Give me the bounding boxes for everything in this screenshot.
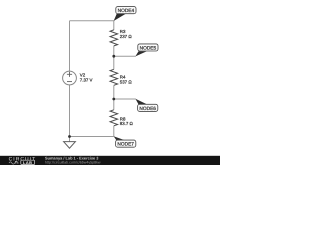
wire: bottom rail horizontal <box>70 136 114 138</box>
node NODE7 flag tail <box>114 136 125 140</box>
svg-text:NODE5: NODE5 <box>140 46 157 52</box>
node NODE4 flag tail <box>114 14 126 21</box>
voltage source V2 minus sign <box>67 81 72 83</box>
voltage source V2 plus sign <box>67 72 72 77</box>
svg-text:7.37 V: 7.37 V <box>80 78 93 83</box>
node NODE5 flag tail <box>135 51 146 56</box>
resistor R8 <box>110 110 118 126</box>
svg-text:LAB: LAB <box>23 160 33 165</box>
junction dot at NODE6 tee <box>112 98 115 101</box>
footer CircuitLab logo LAB box <box>21 160 35 164</box>
footer bar background <box>0 156 220 165</box>
ground symbol <box>64 142 76 149</box>
node NODE6 flag tail <box>135 99 146 104</box>
wire: NODE5 stub <box>114 55 136 57</box>
junction dot at ground tee <box>68 135 71 138</box>
resistor R3 <box>110 30 118 46</box>
wire: lead R4 bottom to NODE6 junction <box>113 85 115 109</box>
node NODE4 flag box <box>116 7 136 14</box>
wire: left rail from top-left corner to V2 positive terminal <box>69 21 71 71</box>
node NODE7 flag box <box>116 140 136 147</box>
svg-text:NODE6: NODE6 <box>139 106 156 112</box>
svg-text:237 Ω: 237 Ω <box>120 34 133 39</box>
wire: V2 negative terminal down to ground junction <box>69 85 71 142</box>
wire: right rail lead into R3 top <box>113 21 115 30</box>
svg-text:http://circuitlab.com/c/6bw4y5: http://circuitlab.com/c/6bw4y5p8kw <box>45 161 101 165</box>
node NODE5 flag box <box>138 44 158 51</box>
voltage source V2 circle <box>63 71 77 85</box>
node NODE6 flag box <box>138 104 158 111</box>
footer CircuitLab logo waveform <box>9 161 19 164</box>
wire: top rail horizontal <box>70 20 114 22</box>
svg-text:NODE4: NODE4 <box>118 8 135 14</box>
wire: NODE6 stub <box>114 98 136 100</box>
junction dot at NODE5 tee <box>112 55 115 58</box>
wire: lead R8 bottom to bottom rail corner <box>113 126 115 137</box>
svg-text:537 Ω: 537 Ω <box>120 80 133 85</box>
svg-text:83.7 Ω: 83.7 Ω <box>120 121 134 126</box>
wire: lead R3 bottom to NODE5 junction <box>113 46 115 70</box>
svg-text:NODE7: NODE7 <box>117 142 134 148</box>
resistor R4 <box>110 69 118 85</box>
